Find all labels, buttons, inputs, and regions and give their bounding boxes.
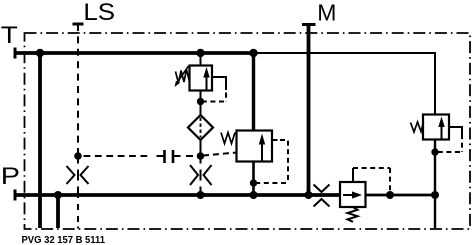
node X1 (200.5,101.5) (197, 98, 204, 105)
wire dashed into reducing valve left (203, 153, 237, 156)
relief valve U1 arrow (203, 67, 209, 90)
svg-text:LS: LS (83, 0, 115, 26)
port P tick (14, 190, 17, 201)
compensator U3 pilot line (353, 168, 390, 192)
reducing valve U2 arrow (259, 134, 265, 161)
wire filter to node LS2 (200, 140, 202, 156)
relief valve U4 arrow (438, 117, 444, 139)
plugged test connection (84, 150, 194, 163)
node X2 (200.5,156) (197, 152, 205, 160)
reducing valve U2 pilot line (257, 140, 288, 183)
wire U1 bottom to node (200, 91, 202, 116)
node X3 (253.5,183) (250, 179, 257, 186)
wire LS dashed down to node (77, 24, 79, 156)
wire U2 bottom to P (252, 162, 255, 196)
label M (317, 0, 336, 25)
wire LS dashed through orifice to bottom edge (77, 157, 79, 229)
node T-B (200,53) (196, 49, 204, 57)
filter F1 (188, 115, 213, 140)
wire dashed pilot down through orifice O2 to P (200, 157, 202, 193)
relief valve U4 body (423, 115, 449, 140)
compensator U3 arrow (343, 191, 362, 198)
node P-C (253.5,195) (250, 191, 258, 199)
relief valve U1 pilot line (203, 77, 226, 102)
label LS (83, 0, 115, 26)
node X4 (435,152) (431, 148, 438, 155)
relief valve U4 pilot line (438, 127, 462, 152)
relief valve U4 spring (411, 122, 424, 132)
label P (1, 162, 20, 189)
orifice O3 on P line (314, 185, 330, 207)
relief valve U1 adjust arrow (175, 66, 189, 87)
relief valve U1 spring (176, 70, 190, 84)
orifice O1 (67, 166, 89, 184)
wire U4 bottom through nodes to bottom edge (434, 140, 436, 229)
node T-C (253.5,53) (249, 49, 257, 57)
svg-text:T: T (1, 21, 18, 49)
reducing valve U2 spring (221, 133, 235, 144)
wire P main (15, 193, 340, 197)
port M tick (302, 23, 316, 26)
part number text (22, 235, 106, 245)
node T-A (40,53) (36, 49, 44, 57)
svg-text:M: M (317, 0, 336, 25)
wire T down channel x=40 (38, 53, 42, 228)
compensator U3 spring (348, 207, 358, 222)
wire thin T branch to right relief (254, 53, 435, 115)
node LS (78,156) (74, 152, 82, 160)
node P-A (58,195) (54, 191, 62, 199)
wire P down channel x=58 (56, 195, 60, 228)
node P-D (390,195) (386, 191, 394, 199)
enclosure dash-dot border (25, 33, 471, 229)
node P-B (200,195) (197, 191, 205, 199)
node P-M (308.5,195) (305, 191, 313, 199)
svg-text:PVG 32 157 B 5111: PVG 32 157 B 5111 (22, 235, 106, 245)
wire T node down to reducing valve (252, 53, 255, 131)
wire M line (307, 25, 311, 196)
wire T main (15, 51, 254, 55)
node P-E (435,195) (431, 191, 439, 199)
relief valve U1 body (190, 66, 213, 91)
orifice O2 (190, 165, 212, 185)
port T tick (14, 48, 17, 59)
wire P after compensator (366, 194, 436, 197)
port LS tick (73, 23, 84, 26)
compensator U3 body (340, 182, 366, 207)
svg-text:P: P (1, 162, 20, 189)
reducing valve U2 body (237, 131, 273, 162)
label T (1, 21, 18, 49)
relief valve U1 top line (200, 53, 202, 66)
